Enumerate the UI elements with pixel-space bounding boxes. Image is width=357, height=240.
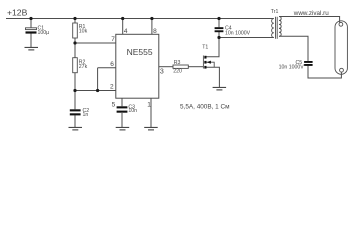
primary winding — [272, 19, 274, 38]
ground under C2 — [69, 127, 83, 129]
op-amp U1 NE555 timer box — [116, 34, 159, 98]
svg-text:5: 5 — [112, 101, 116, 108]
svg-text:NE555: NE555 — [127, 47, 153, 57]
svg-text:100µ: 100µ — [38, 30, 50, 36]
wire drain node to transistor — [207, 38, 220, 57]
svg-text:T1: T1 — [202, 45, 208, 51]
wire C2 drop — [74, 91, 76, 110]
node junction rail-C1 — [29, 17, 32, 20]
node junction R1-R2-pin7 — [73, 41, 76, 44]
wire C1 drop — [30, 19, 32, 28]
node junction drain-C4-primary — [217, 36, 220, 39]
svg-text:220: 220 — [173, 69, 182, 75]
wire pin 4 — [122, 19, 124, 35]
secondary winding — [279, 17, 281, 37]
wire pin 1 to ground — [150, 98, 152, 127]
capacitor C3 — [117, 104, 138, 114]
wire secondary bottom lead — [279, 36, 308, 61]
ground under pin 1 — [144, 127, 158, 129]
wire C1 to ground — [30, 34, 32, 48]
wire C2 to ground — [74, 115, 76, 127]
wire drain vertical — [218, 19, 220, 27]
wire R1 bottom to node — [74, 38, 76, 43]
wire C5 bottom to lamp — [308, 66, 341, 78]
svg-text:1: 1 — [147, 101, 151, 108]
wire secondary top lead — [279, 17, 340, 23]
wire source to ground — [207, 67, 220, 87]
capacitor C1 — [26, 26, 50, 37]
svg-text:8: 8 — [153, 28, 157, 35]
ground under C1 — [25, 47, 39, 50]
wire R2 bottom — [74, 73, 76, 91]
node junction R2-C2-pin2 — [73, 89, 76, 92]
node junction pin6 branch — [96, 89, 99, 92]
transformer Tr1 — [271, 9, 281, 39]
transistor T1 (N-MOSFET) — [202, 45, 214, 69]
wire drain node to primary bottom — [219, 37, 274, 39]
svg-text:6: 6 — [110, 61, 114, 68]
capacitor C5 — [279, 60, 313, 71]
svg-text:10n: 10n — [128, 108, 137, 114]
wire pin 6 branch vertical — [97, 68, 99, 91]
svg-text:3: 3 — [160, 69, 164, 76]
lamp EL1 fluorescent tube — [335, 21, 347, 75]
capacitor C2 — [70, 108, 89, 118]
wire C4 bottom to drain node — [218, 32, 220, 38]
node junction rail-R1 — [73, 17, 76, 20]
svg-text:R3: R3 — [174, 60, 181, 66]
node junction rail-pin4 — [121, 17, 124, 20]
svg-text:27k: 27k — [79, 64, 88, 70]
wire pin 6 — [98, 67, 116, 69]
resistor R2 — [73, 58, 88, 73]
wire pin 8 — [151, 19, 153, 35]
svg-text:7: 7 — [111, 36, 115, 43]
svg-text:Tr1: Tr1 — [271, 9, 279, 15]
capacitor C4 — [215, 25, 251, 36]
ground under C3 — [116, 127, 130, 129]
transformer core — [275, 17, 277, 39]
resistor R1 — [73, 23, 88, 38]
svg-text:10n 1000V: 10n 1000V — [225, 31, 251, 37]
wire +12V top rail — [6, 18, 274, 20]
wire C3 to ground — [121, 113, 123, 127]
svg-text:1n: 1n — [83, 112, 89, 118]
lamp bottom electrode — [340, 68, 344, 72]
svg-text:4: 4 — [124, 28, 128, 35]
wire R1 top — [74, 19, 76, 23]
wire R3 to gate — [188, 66, 203, 68]
wire node to R2 — [74, 43, 76, 58]
wire pin 2 — [75, 90, 116, 92]
svg-text:www.zival.ru: www.zival.ru — [293, 10, 329, 17]
lamp top electrode — [339, 22, 343, 26]
svg-text:+12В: +12В — [7, 8, 28, 18]
svg-text:10n 1000V: 10n 1000V — [279, 65, 305, 71]
ground under T1 source — [213, 87, 227, 90]
node junction rail-pin8 — [150, 17, 153, 20]
wire pin 7 — [75, 42, 116, 44]
node junction rail-C4 — [217, 17, 220, 20]
svg-text:5,5А, 400В, 1 См: 5,5А, 400В, 1 См — [180, 104, 230, 111]
resistor R3 — [173, 60, 188, 75]
wire pin 5 — [121, 98, 123, 106]
svg-text:10k: 10k — [79, 29, 88, 35]
svg-text:2: 2 — [110, 84, 114, 91]
wire pin 3 — [159, 66, 173, 68]
